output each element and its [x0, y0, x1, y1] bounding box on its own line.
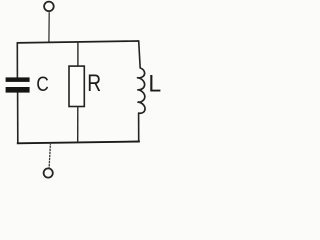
bottom rail wire: [17, 142, 140, 144]
paper background: [0, 0, 164, 184]
inductor L coil: [138, 68, 146, 113]
resistor branch bottom wire: [77, 107, 79, 143]
resistor branch top wire: [77, 42, 79, 67]
coil cusp dots: [137, 77, 139, 79]
right branch upper wire: [139, 41, 141, 68]
capacitor C top plate: [6, 77, 30, 82]
wire from bottom rail to bottom terminal: [49, 142, 50, 168]
left branch lower wire: [17, 92, 19, 143]
top terminal: [44, 2, 54, 12]
wire from top terminal to top rail: [48, 12, 50, 42]
svg-text:C: C: [36, 72, 48, 96]
right branch lower wire: [138, 113, 140, 142]
resistor R body: [69, 66, 84, 106]
top rail wire: [17, 41, 140, 43]
svg-text:L: L: [148, 70, 161, 97]
capacitor C bottom plate: [6, 87, 30, 93]
parallel RLC circuit schematic: [0, 0, 164, 184]
bottom terminal: [44, 168, 53, 177]
svg-text:R: R: [87, 70, 101, 97]
left branch upper wire: [16, 43, 18, 78]
